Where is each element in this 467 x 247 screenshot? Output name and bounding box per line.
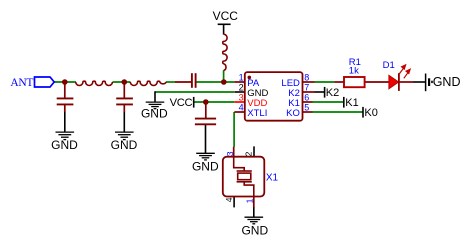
svg-text:8: 8 bbox=[304, 73, 309, 83]
svg-text:5: 5 bbox=[304, 103, 309, 113]
svg-text:GND: GND bbox=[241, 223, 268, 237]
svg-text:2: 2 bbox=[244, 151, 254, 156]
svg-text:K1: K1 bbox=[345, 97, 358, 109]
svg-text:6: 6 bbox=[304, 93, 309, 103]
svg-text:GND: GND bbox=[433, 75, 461, 89]
svg-text:VCC: VCC bbox=[170, 97, 193, 109]
svg-text:1k: 1k bbox=[349, 65, 359, 76]
svg-text:VCC: VCC bbox=[213, 9, 239, 23]
svg-text:3: 3 bbox=[239, 93, 244, 103]
svg-text:D1: D1 bbox=[383, 60, 395, 71]
svg-text:1: 1 bbox=[245, 198, 255, 203]
svg-text:2: 2 bbox=[239, 83, 244, 93]
svg-text:GND: GND bbox=[111, 138, 138, 152]
svg-text:GND: GND bbox=[141, 106, 168, 120]
svg-text:ANT: ANT bbox=[10, 77, 33, 89]
svg-text:7: 7 bbox=[304, 83, 309, 93]
svg-text:K2: K2 bbox=[326, 87, 339, 99]
svg-text:4: 4 bbox=[224, 197, 234, 202]
svg-text:K0: K0 bbox=[364, 107, 377, 119]
svg-text:4: 4 bbox=[239, 103, 244, 113]
svg-text:XTLI: XTLI bbox=[247, 108, 267, 119]
svg-text:GND: GND bbox=[192, 160, 219, 174]
svg-text:X1: X1 bbox=[266, 173, 279, 184]
svg-text:KO: KO bbox=[286, 108, 300, 119]
svg-text:3: 3 bbox=[225, 151, 235, 156]
svg-text:GND: GND bbox=[51, 138, 78, 152]
svg-text:1: 1 bbox=[239, 73, 244, 83]
